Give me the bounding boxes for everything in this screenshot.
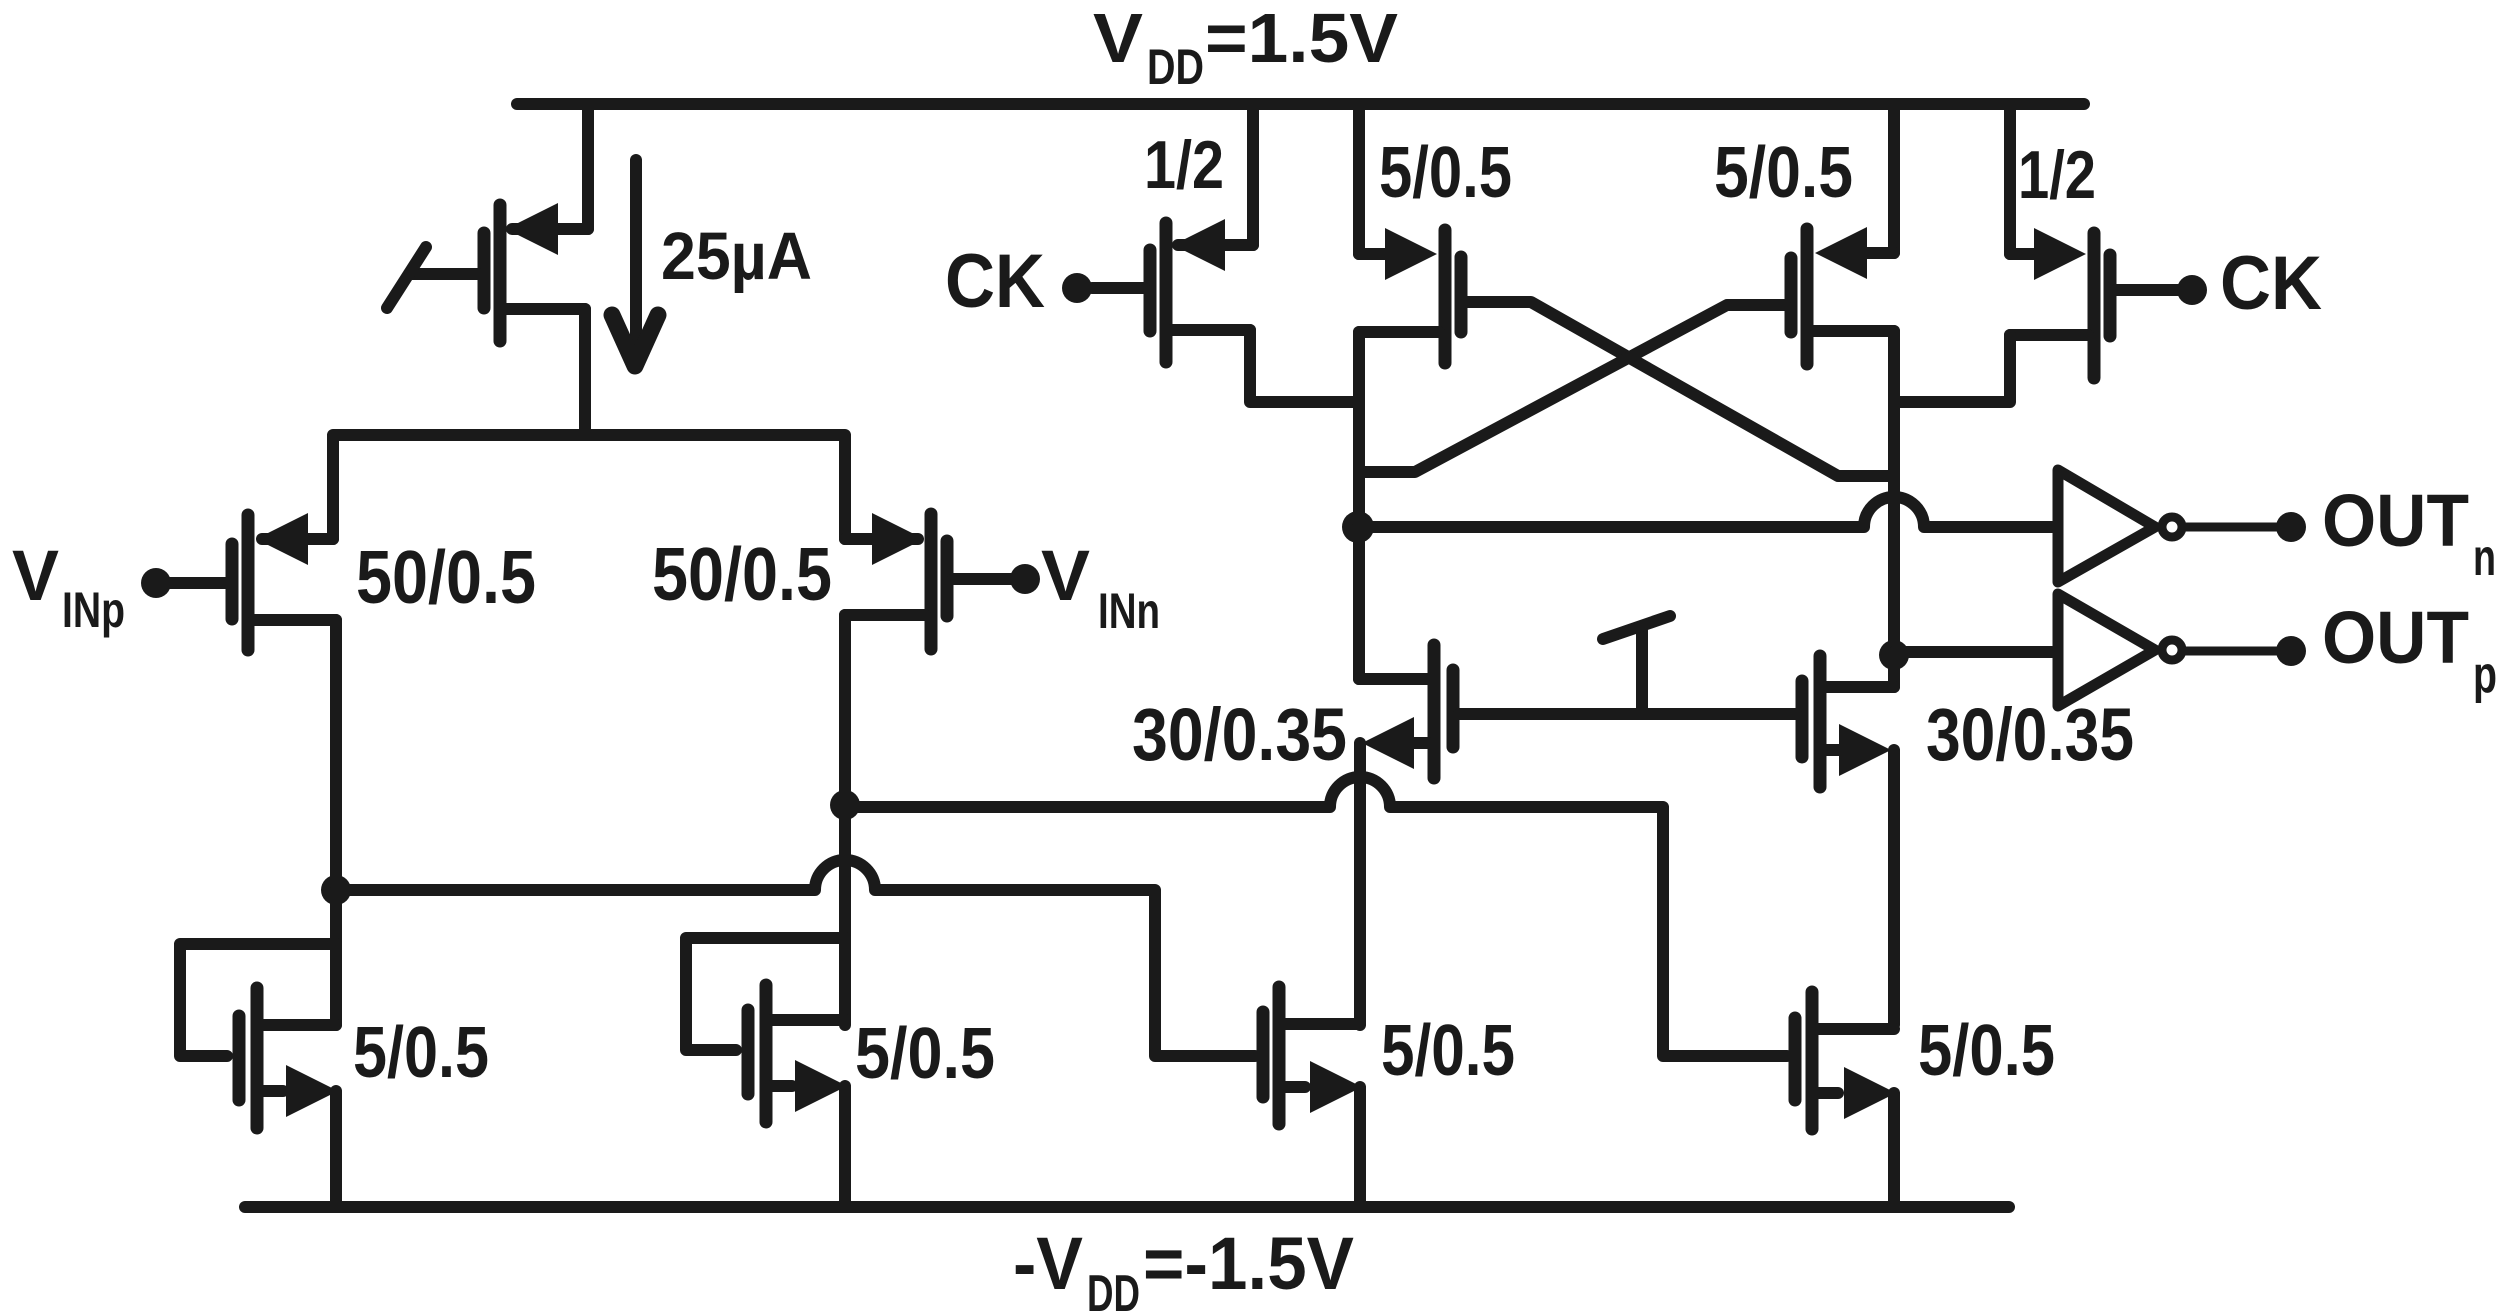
wire: common gate of M7 and M8	[1459, 708, 1796, 720]
svg-text:DD: DD	[1087, 1265, 1140, 1315]
transistor M10 tail NMOS 5/0.5 fourth	[1795, 992, 1896, 1129]
svg-text:V: V	[12, 537, 59, 616]
transistor M0 bias PMOS current source	[387, 203, 588, 341]
transistor M7 latch NMOS 30/0.35 left	[1359, 645, 1453, 778]
transistor P1 clock PMOS 1/2 left	[1092, 104, 1253, 362]
svg-text:50/0.5: 50/0.5	[652, 532, 832, 616]
wire: cross coupling P2 gate to node B	[1467, 302, 1894, 476]
node CK left input dot	[1062, 273, 1092, 303]
svg-text:30/0.35: 30/0.35	[1926, 693, 2134, 776]
svg-text:5/0.5: 5/0.5	[1918, 1011, 2055, 1091]
transistor M6 mirror NMOS 5/0.5 diode connected second	[686, 938, 847, 1122]
wire: M6 source to VSS rail	[839, 1086, 851, 1207]
svg-text:DD: DD	[1147, 39, 1204, 95]
svg-text:5/0.5: 5/0.5	[1381, 1011, 1515, 1091]
node VINn input dot	[1010, 564, 1040, 594]
svg-text:V: V	[1093, 0, 1143, 77]
transistor M5 mirror NMOS 5/0.5 diode connected left	[180, 944, 338, 1128]
svg-text:1/2: 1/2	[2018, 137, 2096, 213]
node C junction dot	[321, 875, 351, 905]
svg-text:50/0.5: 50/0.5	[356, 535, 536, 619]
clock tick symbol on latch gate	[1603, 616, 1670, 714]
svg-text:V: V	[1041, 537, 1090, 616]
wire: node B vertical	[1888, 331, 1900, 687]
node CK right input dot	[2177, 275, 2207, 305]
transistor M1 input PMOS VINp 50/0.5	[168, 513, 336, 650]
wire: node C to M9 gate with hop over M6 drain	[336, 860, 1255, 1056]
node D junction dot	[830, 790, 860, 820]
wire: M7 source down to M9 drain	[1354, 743, 1366, 1025]
VDD power rail	[517, 98, 2084, 110]
svg-text:=1.5V: =1.5V	[1205, 0, 1398, 77]
svg-text:30/0.35: 30/0.35	[1132, 693, 1347, 776]
wire: M10 source to VSS rail	[1888, 1093, 1900, 1207]
wire: M2 drain down to node D	[839, 615, 851, 1025]
inverter U1	[2058, 470, 2279, 582]
svg-text:OUT: OUT	[2322, 479, 2469, 562]
wire: M8 source down to M10 drain	[1888, 750, 1900, 1025]
svg-text:=-1.5V: =-1.5V	[1143, 1222, 1354, 1305]
node A junction dot	[1342, 511, 1374, 543]
wire: M9 source to VSS rail	[1354, 1087, 1366, 1207]
wire: M0 drain down to tail node	[579, 309, 591, 435]
wire: cross coupling P3 gate to node A	[1359, 305, 1785, 472]
svg-text:CK: CK	[945, 239, 1045, 324]
transistor P4 clock PMOS 1/2 right	[2010, 104, 2178, 378]
wire: M5 source to VSS rail	[330, 1091, 342, 1207]
wire: node A vertical	[1353, 332, 1365, 679]
svg-text:INn: INn	[1098, 583, 1160, 639]
wire: node D to M10 gate with hop over M7 source line	[845, 777, 1787, 1056]
wire: node B to inverter U2 input	[1894, 646, 2052, 658]
transistor P3 latch PMOS 5/0.5 right	[1791, 104, 1894, 364]
svg-text:5/0.5: 5/0.5	[1714, 133, 1853, 213]
current arrow 25uA	[612, 160, 658, 366]
svg-text:5/0.5: 5/0.5	[855, 1014, 995, 1094]
wire: P4 drain elbow to node B	[1894, 335, 2010, 402]
wire: M1 drain down to node C	[330, 620, 342, 1025]
node B junction dot	[1879, 640, 1909, 670]
node OUTn output dot	[2276, 512, 2306, 542]
transistor P2 latch PMOS 5/0.5 left	[1359, 104, 1461, 363]
transistor M2 input PMOS VINn 50/0.5	[845, 513, 1012, 649]
svg-text:25µA: 25µA	[661, 219, 812, 294]
transistor M9 tail NMOS 5/0.5 third	[1263, 987, 1362, 1124]
wire: P1 drain elbow to node A	[1250, 330, 1359, 402]
node VINp input dot	[141, 568, 171, 598]
svg-text:-V: -V	[1013, 1222, 1083, 1305]
VSS power rail	[245, 1201, 2009, 1213]
svg-text:OUT: OUT	[2322, 596, 2469, 679]
svg-text:n: n	[2473, 529, 2496, 587]
wire: node A to inverter U1 input with hop over node B	[1358, 497, 2052, 527]
node OUTp output dot	[2276, 636, 2306, 666]
svg-text:CK: CK	[2220, 241, 2322, 326]
wire: tail node connecting diff pair sources	[333, 435, 845, 539]
wire: bias source riser from VDD rail	[582, 104, 594, 229]
inverter U2	[2058, 594, 2279, 706]
transistor M8 latch NMOS 30/0.35 right	[1802, 656, 1894, 787]
svg-text:INp: INp	[62, 582, 125, 638]
svg-text:5/0.5: 5/0.5	[1379, 133, 1512, 213]
svg-text:5/0.5: 5/0.5	[353, 1013, 489, 1093]
svg-text:p: p	[2473, 646, 2497, 704]
svg-text:1/2: 1/2	[1144, 127, 1224, 203]
